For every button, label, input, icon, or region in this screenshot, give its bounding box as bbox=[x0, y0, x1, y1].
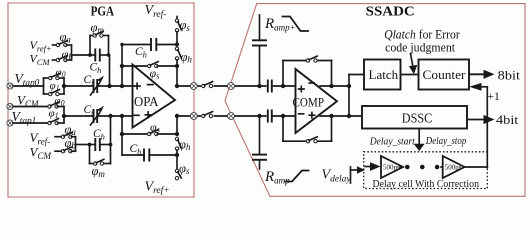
wire feedback rail left (top) bbox=[121, 45, 123, 87]
node cross link (top) bbox=[347, 84, 351, 88]
delay cell buffer 2 (500ps) bbox=[443, 156, 465, 178]
node rail/output junction (top) bbox=[175, 84, 179, 88]
ramp symbol rising bbox=[286, 171, 309, 182]
capacitor Ramp- coupling bbox=[252, 155, 267, 160]
wire box to Cs bbox=[64, 85, 94, 87]
svg-text:Vdelay: Vdelay bbox=[322, 168, 352, 185]
svg-text:Latch: Latch bbox=[369, 67, 399, 82]
wire cross link bbox=[348, 75, 350, 117]
node combo corners (bottom) bbox=[88, 143, 92, 147]
svg-text:Cs: Cs bbox=[84, 74, 96, 88]
wire rail to phis tap (bottom) bbox=[176, 116, 178, 134]
svg-text:Ch: Ch bbox=[93, 128, 105, 142]
node phis/rail junction (top) bbox=[175, 64, 179, 68]
comparator COMP bbox=[293, 69, 338, 133]
svg-text:Delay_start: Delay_start bbox=[369, 137, 416, 148]
svg-text:Delay cell With Correction: Delay cell With Correction bbox=[373, 179, 480, 190]
svg-text:φ1: φ1 bbox=[50, 80, 60, 93]
wire Ramp- branch bbox=[259, 160, 261, 169]
capacitor Ch (combo top) bbox=[90, 49, 109, 62]
svg-text:PGA: PGA bbox=[91, 3, 115, 18]
wire Vdelay connector bbox=[351, 166, 366, 183]
switch phim (top) bbox=[93, 31, 103, 37]
svg-text:OPA: OPA bbox=[134, 95, 159, 110]
node Vtap1 input terminal bbox=[7, 120, 13, 126]
node fb loop/output junction (top) bbox=[329, 84, 333, 88]
node PGA border port (bottom) bbox=[190, 113, 197, 120]
svg-text:φa: φa bbox=[60, 30, 72, 45]
wire ref junction bar (bottom) bbox=[71, 137, 89, 152]
node COMP fb tap (top) bbox=[281, 84, 285, 88]
node fb loop/output junction (bottom) bbox=[329, 114, 333, 118]
node Ramp- junction bbox=[257, 114, 261, 118]
switch phib (top) bbox=[53, 56, 68, 62]
switch pair box (phi0/phi1) top channel bbox=[44, 78, 65, 94]
switch phia (bottom) bbox=[55, 132, 72, 138]
wire combo drop to main line (bottom) bbox=[110, 116, 112, 145]
switch phih (top rail) bbox=[175, 47, 181, 66]
svg-text:Vtap1: Vtap1 bbox=[12, 109, 37, 127]
svg-text:4bit: 4bit bbox=[496, 113, 519, 127]
svg-text:SSADC: SSADC bbox=[366, 3, 415, 18]
wire COMP top output bbox=[320, 85, 349, 87]
svg-text:+1: +1 bbox=[488, 91, 500, 103]
svg-text:φ0: φ0 bbox=[56, 66, 66, 79]
wire +1 feedback bbox=[469, 83, 487, 168]
wire to Cs (bottom) bbox=[64, 115, 94, 117]
capacitor Ch feedback (bottom) bbox=[122, 149, 177, 162]
svg-text:φs: φs bbox=[150, 66, 161, 81]
node Vtap0 input terminal bbox=[7, 83, 13, 89]
svg-text:VCM: VCM bbox=[30, 144, 52, 161]
svg-text:8bit: 8bit bbox=[498, 68, 521, 82]
wire OPA top output to COMP bbox=[176, 85, 266, 87]
svg-text:Ch: Ch bbox=[90, 62, 102, 76]
capacitor Cs (variable, bottom) bbox=[91, 106, 105, 125]
node rail/output junction (bottom) bbox=[175, 114, 179, 118]
wire Cs to OPA input (bottom) bbox=[97, 115, 132, 117]
switch phi1 (bottom channel) bbox=[48, 119, 64, 125]
arrow Qlatch annotation bbox=[409, 54, 417, 75]
switch COMP reset (bottom) bbox=[306, 137, 317, 143]
node fb phis tap (bottom) bbox=[120, 132, 124, 136]
switch interstage (top) bbox=[201, 80, 214, 88]
wire feedback rail left (bottom) bbox=[121, 116, 123, 155]
svg-text:code judgment: code judgment bbox=[385, 41, 455, 55]
capacitor Ch (combo bottom) bbox=[90, 138, 111, 151]
wire joining bar (bottom channel) bbox=[63, 107, 65, 124]
PGA block dashed border bbox=[8, 3, 194, 197]
wire COMP feedback loop (bottom) bbox=[283, 116, 332, 141]
wire OPA bottom output to COMP bbox=[176, 115, 266, 117]
switch phis feedback (top) bbox=[122, 62, 177, 68]
svg-text:COMP: COMP bbox=[293, 95, 325, 109]
svg-text:Ramp-: Ramp- bbox=[264, 169, 293, 186]
svg-text:VCM: VCM bbox=[30, 52, 51, 68]
wire rail to output line (top) bbox=[176, 66, 178, 86]
capacitor input coupling (top) bbox=[268, 80, 296, 93]
node ellipsis dots bbox=[405, 165, 439, 170]
node chevron port (top) bbox=[228, 83, 235, 90]
block DSSC bbox=[362, 106, 467, 129]
delay cell buffer 1 (500ps) bbox=[381, 156, 403, 178]
wire Latch to Counter bbox=[401, 74, 419, 76]
svg-text:φh: φh bbox=[179, 137, 191, 152]
svg-text:Vref+: Vref+ bbox=[145, 179, 170, 196]
delay cell dotted box bbox=[364, 152, 488, 189]
wire COMP bottom output to DSSC bbox=[320, 115, 362, 117]
svg-text:φm: φm bbox=[91, 20, 105, 35]
wire Cs to OPA input bbox=[97, 85, 132, 87]
node Ramp+ junction bbox=[257, 84, 261, 88]
node feedback junction bbox=[120, 84, 124, 88]
node bottom channel junction bbox=[62, 114, 66, 118]
node fb phis tap (top) bbox=[120, 64, 124, 68]
wire Vtap0 to switch box bbox=[13, 85, 44, 87]
svg-text:φ0: φ0 bbox=[55, 95, 65, 108]
switch phib (bottom) bbox=[55, 147, 72, 153]
svg-text:Ch: Ch bbox=[130, 143, 142, 157]
wire buffer1 output bbox=[400, 166, 403, 168]
svg-text:Qlatch for Error: Qlatch for Error bbox=[384, 27, 460, 41]
node Ch/rail junction (bottom) bbox=[175, 153, 179, 157]
svg-text:DSSC: DSSC bbox=[402, 111, 433, 126]
svg-text:Delay_stop: Delay_stop bbox=[425, 136, 466, 147]
svg-text:φs: φs bbox=[179, 161, 190, 176]
op-amp OPA bbox=[133, 65, 176, 128]
switch phis to Vref+ (bottom rail) bbox=[175, 155, 181, 180]
block Latch bbox=[364, 60, 401, 90]
node PGA border port (top) bbox=[190, 83, 197, 90]
wire Ramp+ branch bbox=[259, 15, 261, 40]
parallel combo Ch/phim (bottom) bbox=[90, 145, 111, 164]
svg-text:φs: φs bbox=[150, 120, 161, 135]
parallel combo phim/Ch (top) bbox=[90, 36, 109, 56]
switch phi0 (top path) bbox=[49, 74, 60, 80]
wire Ramp+ cap to line bbox=[259, 46, 261, 87]
arrow into delay cell 1 bbox=[365, 162, 381, 171]
switch phi1 (bottom path) bbox=[49, 90, 60, 96]
svg-text:500ps: 500ps bbox=[383, 164, 400, 172]
arrow 4bit output bbox=[467, 115, 495, 124]
capacitor Cs (variable, top) bbox=[91, 76, 105, 95]
capacitor input coupling (bottom) bbox=[268, 110, 296, 123]
svg-text:φs: φs bbox=[180, 18, 191, 33]
ramp symbol falling bbox=[283, 17, 309, 32]
arrow 8bit output bbox=[469, 70, 495, 79]
svg-text:Cs: Cs bbox=[84, 104, 96, 118]
switch phia (top) bbox=[53, 41, 68, 47]
SSADC block dashed border (with left chevron) bbox=[225, 4, 525, 197]
svg-text:500ps: 500ps bbox=[445, 164, 462, 172]
switch COMP reset (top) bbox=[306, 56, 317, 62]
wire Ramp- cap to line bbox=[259, 116, 261, 155]
wire combo drop to main line (top) bbox=[109, 54, 110, 56]
svg-text:φ1: φ1 bbox=[49, 108, 59, 121]
switch phih (bottom rail) bbox=[175, 137, 181, 155]
node box output junction bbox=[62, 84, 66, 88]
node VCM mid input terminal bbox=[7, 103, 13, 109]
svg-text:φb: φb bbox=[65, 136, 77, 151]
node Ch/rail junction (top) bbox=[175, 42, 179, 46]
svg-text:Ch: Ch bbox=[135, 46, 147, 60]
wire ref junction bar (top) bbox=[66, 45, 90, 60]
svg-text:φm: φm bbox=[92, 164, 106, 179]
switch phi0 (bottom channel) bbox=[48, 102, 64, 108]
svg-text:Vref-: Vref- bbox=[145, 3, 167, 20]
capacitor Ch feedback (top) bbox=[122, 38, 177, 51]
switch phim (bottom) bbox=[94, 159, 104, 165]
block Counter bbox=[419, 60, 470, 90]
wire buffer2 input bbox=[441, 166, 444, 168]
capacitor Ramp+ coupling bbox=[252, 40, 267, 45]
node COMP fb tap (bottom) bbox=[281, 114, 285, 118]
svg-text:φh: φh bbox=[181, 50, 193, 65]
node feedback junction (bottom) bbox=[120, 114, 124, 118]
wire Vtap1 to phi1 switch bbox=[13, 122, 48, 124]
wire buffer2 output bbox=[464, 166, 487, 168]
node phis/rail junction (bottom) bbox=[175, 132, 179, 136]
switch phis to Vref- (top rail) bbox=[175, 17, 181, 45]
wire to Latch bbox=[349, 74, 364, 76]
node chevron port (bottom) bbox=[228, 113, 235, 120]
node ref-branch junction (bottom) bbox=[108, 114, 112, 118]
node combo corners (top) bbox=[88, 53, 92, 57]
switch interstage (bottom) bbox=[201, 110, 214, 118]
node ref-branch junction bbox=[107, 84, 111, 88]
svg-text:Counter: Counter bbox=[423, 67, 467, 82]
node cross link (bottom) bbox=[347, 114, 351, 118]
annotation Qlatch for Error code judgment bbox=[384, 27, 460, 54]
switch phis feedback (bottom) bbox=[122, 130, 177, 136]
arrow DSSC to delay cell bbox=[414, 130, 425, 151]
wire VCM to phi0 switch bbox=[13, 106, 48, 108]
wire COMP feedback loop (top) bbox=[283, 61, 332, 87]
